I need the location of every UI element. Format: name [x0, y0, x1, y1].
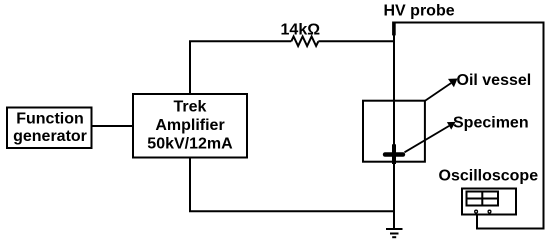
oscilloscope icon: [462, 189, 516, 215]
oil vessel box: [363, 101, 425, 162]
specimen electrode plate: [383, 152, 405, 157]
wire: amplifier bottom to ground node: [190, 158, 394, 211]
label: Trek Amplifier 50kV/12mA: [147, 98, 233, 152]
op-amp U1 Trek amplifier box: [133, 94, 247, 158]
function generator box: [7, 108, 92, 149]
wire: function generator output to amplifier input: [92, 125, 134, 127]
svg-text:Specimen: Specimen: [453, 115, 529, 132]
svg-text:50kV/12mA: 50kV/12mA: [147, 136, 233, 153]
resistor R1 14kOhm zigzag: [291, 37, 318, 47]
ground symbol: [386, 229, 403, 237]
arrow to oil vessel label: [425, 79, 458, 101]
svg-text:HV probe: HV probe: [384, 2, 455, 19]
arrow to specimen label: [405, 122, 456, 152]
svg-text:generator: generator: [13, 128, 87, 145]
svg-text:Function: Function: [16, 110, 84, 127]
svg-text:Oil vessel: Oil vessel: [457, 72, 532, 89]
specimen electrode stem: [392, 144, 396, 164]
svg-text:Trek: Trek: [174, 98, 207, 115]
svg-text:14kΩ: 14kΩ: [281, 22, 321, 39]
wire: HV vertical line through oil vessel to ground: [393, 35, 395, 229]
wire: bottom right to oscilloscope: [477, 214, 545, 229]
label: Function generator: [13, 110, 87, 144]
HV probe tip bar: [392, 22, 396, 36]
svg-text:Oscilloscope: Oscilloscope: [439, 168, 539, 185]
wire: right side vertical down: [543, 22, 545, 230]
wire: top right horizontal from probe: [394, 22, 545, 24]
wire: amplifier output up and right to resistor: [190, 41, 291, 93]
wire: resistor to HV node: [318, 40, 394, 42]
svg-text:Amplifier: Amplifier: [155, 117, 224, 134]
